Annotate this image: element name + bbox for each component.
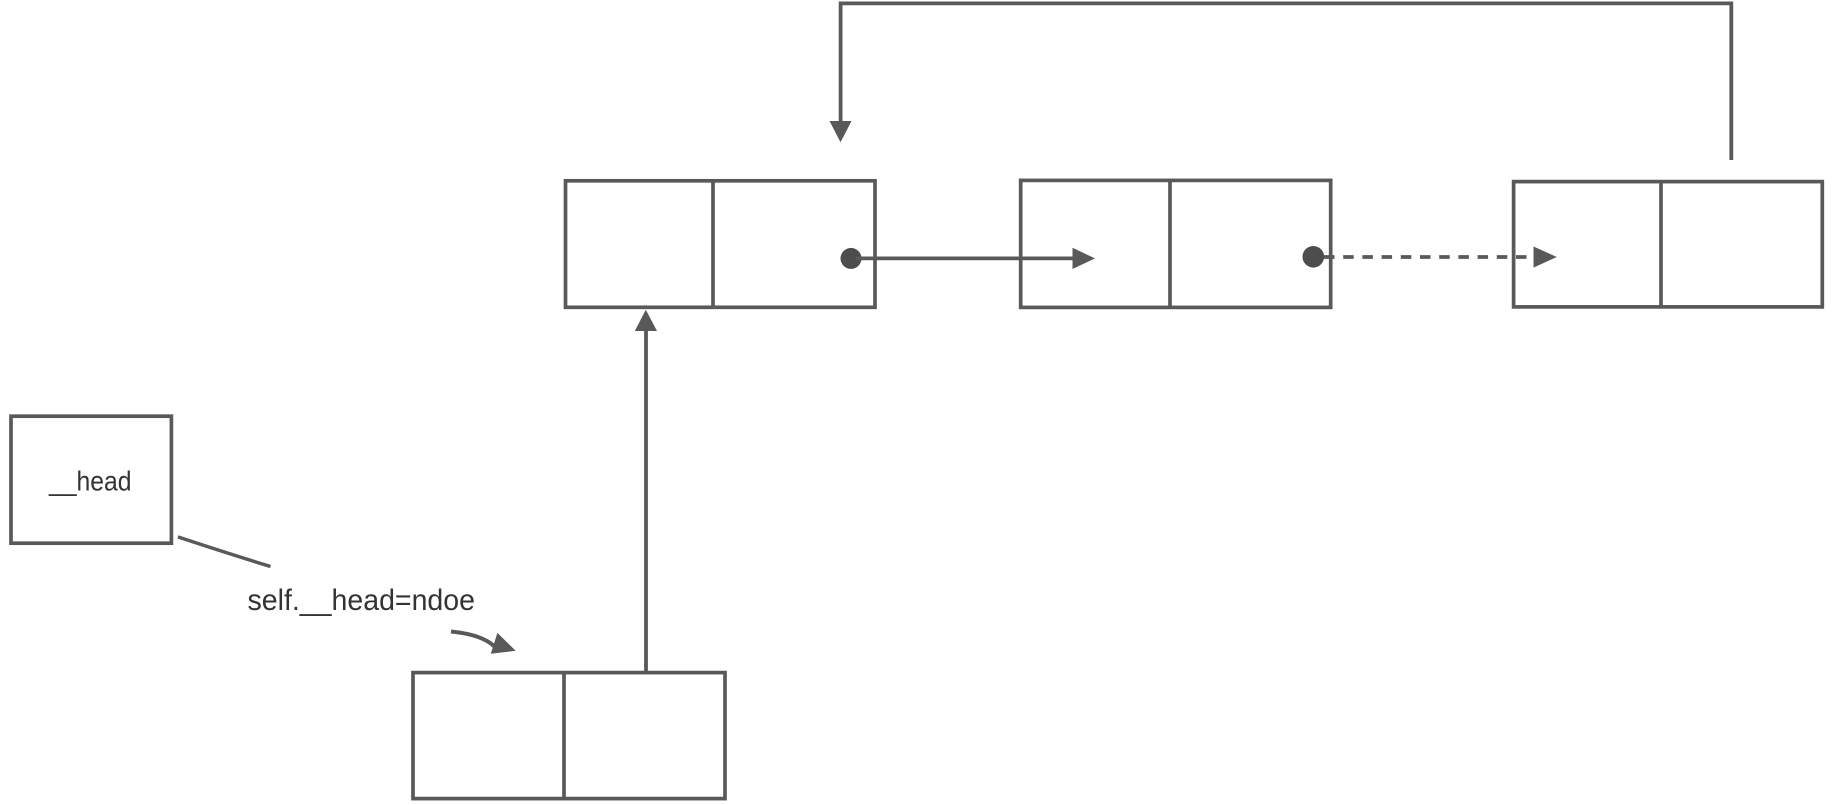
new node box (bottom) — [413, 673, 725, 799]
loop arrow from N3 over the top down to N1 — [830, 3, 1732, 160]
svg-text:__head: __head — [48, 466, 131, 497]
small curved annotation arrow — [451, 632, 516, 654]
leader line from __head box — [178, 537, 271, 567]
node box N2 (second linked-list node) — [1021, 180, 1331, 307]
dashed arrow N2 -> N3 — [1324, 247, 1557, 268]
node box N1 (first linked-list node) — [566, 181, 876, 307]
pointer dot of N2 — [1303, 246, 1325, 268]
node box N3 (last linked-list node) — [1514, 182, 1823, 307]
svg-text:self.__head=ndoe: self.__head=ndoe — [248, 584, 476, 617]
arrow N1 -> N2 — [856, 248, 1095, 269]
arrow new node -> N1 — [635, 310, 657, 673]
__head box — [11, 416, 171, 543]
pointer dot of N1 — [841, 248, 862, 269]
